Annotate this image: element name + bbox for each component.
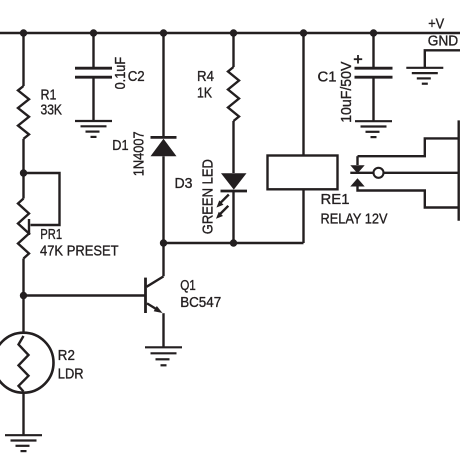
wire PR1 wiper tick bbox=[28, 219, 30, 235]
LED D3 arrow 2 bbox=[216, 206, 228, 219]
capacitor C1 bbox=[355, 33, 393, 121]
svg-text:R2: R2 bbox=[58, 347, 75, 364]
svg-text:D1: D1 bbox=[112, 137, 128, 154]
node R1-PR1 junction bbox=[20, 169, 27, 176]
wire base bbox=[24, 294, 146, 296]
node rail-R1 bbox=[20, 29, 27, 36]
resistor R1 bbox=[18, 33, 29, 173]
transistor Q1 bbox=[146, 243, 164, 347]
node rail-C1 bbox=[370, 29, 377, 36]
wire relay NC contact bbox=[358, 138, 459, 156]
relay RE1 coil box bbox=[268, 156, 338, 190]
node D1-Q1 junction bbox=[160, 239, 167, 246]
LED D3 arrow 1 bbox=[217, 195, 229, 208]
ground C2 bbox=[75, 121, 112, 137]
node rail-C2 bbox=[90, 29, 97, 36]
LED D3 bbox=[221, 173, 248, 243]
resistor PR1 preset bbox=[18, 173, 29, 296]
wire load terminal edge bbox=[458, 120, 460, 220]
svg-text:Q1: Q1 bbox=[180, 277, 196, 294]
node base junction bbox=[20, 292, 27, 299]
svg-text:D3: D3 bbox=[175, 175, 193, 192]
svg-text:+V: +V bbox=[428, 16, 444, 33]
svg-text:10uF/50V: 10uF/50V bbox=[338, 62, 355, 123]
node rail-R4 bbox=[230, 29, 237, 36]
node LED junction bbox=[230, 239, 237, 246]
label C1 plus sign bbox=[354, 55, 362, 64]
svg-text:LDR: LDR bbox=[58, 366, 84, 383]
node rail-RE1 bbox=[300, 29, 307, 36]
ground Q1 emitter bbox=[145, 347, 182, 365]
resistor R4 bbox=[228, 33, 239, 173]
wire PR1 wiper loop bbox=[24, 173, 60, 225]
svg-text:C1: C1 bbox=[318, 68, 337, 85]
svg-text:0.1uF: 0.1uF bbox=[112, 57, 129, 90]
svg-text:PR1: PR1 bbox=[40, 226, 62, 243]
ground C1 bbox=[355, 121, 392, 137]
wire relay coil top bbox=[302, 33, 304, 155]
wire +V top rail bbox=[0, 32, 460, 34]
resistor R2 LDR bbox=[0, 296, 54, 436]
diode D1 bbox=[151, 33, 177, 243]
wire relay NO contact bbox=[358, 186, 459, 207]
capacitor C2 bbox=[75, 33, 112, 121]
svg-text:RE1: RE1 bbox=[321, 191, 350, 208]
svg-text:1N4007: 1N4007 bbox=[131, 131, 148, 176]
relay NC contact triangle bbox=[350, 165, 364, 173]
ground GND-symbol top right bbox=[406, 68, 443, 84]
svg-text:BC547: BC547 bbox=[180, 294, 221, 311]
svg-text:RELAY 12V: RELAY 12V bbox=[321, 211, 388, 228]
wire pole left stub bbox=[350, 172, 373, 174]
ground LDR bbox=[5, 435, 42, 451]
relay pole circle bbox=[374, 168, 384, 178]
svg-text:GND: GND bbox=[428, 33, 459, 50]
svg-text:R4: R4 bbox=[197, 68, 214, 85]
wire collector node row bbox=[164, 242, 304, 244]
svg-text:47K PRESET: 47K PRESET bbox=[40, 242, 119, 259]
wire GND stub bbox=[425, 50, 460, 67]
wire NC drop bbox=[356, 156, 358, 165]
svg-text:33K: 33K bbox=[41, 101, 63, 118]
relay NO contact triangle bbox=[350, 178, 364, 186]
svg-text:C2: C2 bbox=[128, 68, 145, 85]
wire relay coil bottom bbox=[302, 189, 304, 243]
svg-text:GREEN LED: GREEN LED bbox=[199, 159, 216, 234]
node rail-D1 bbox=[160, 29, 167, 36]
svg-text:1K: 1K bbox=[197, 84, 212, 101]
wire pole to load bbox=[384, 172, 459, 174]
